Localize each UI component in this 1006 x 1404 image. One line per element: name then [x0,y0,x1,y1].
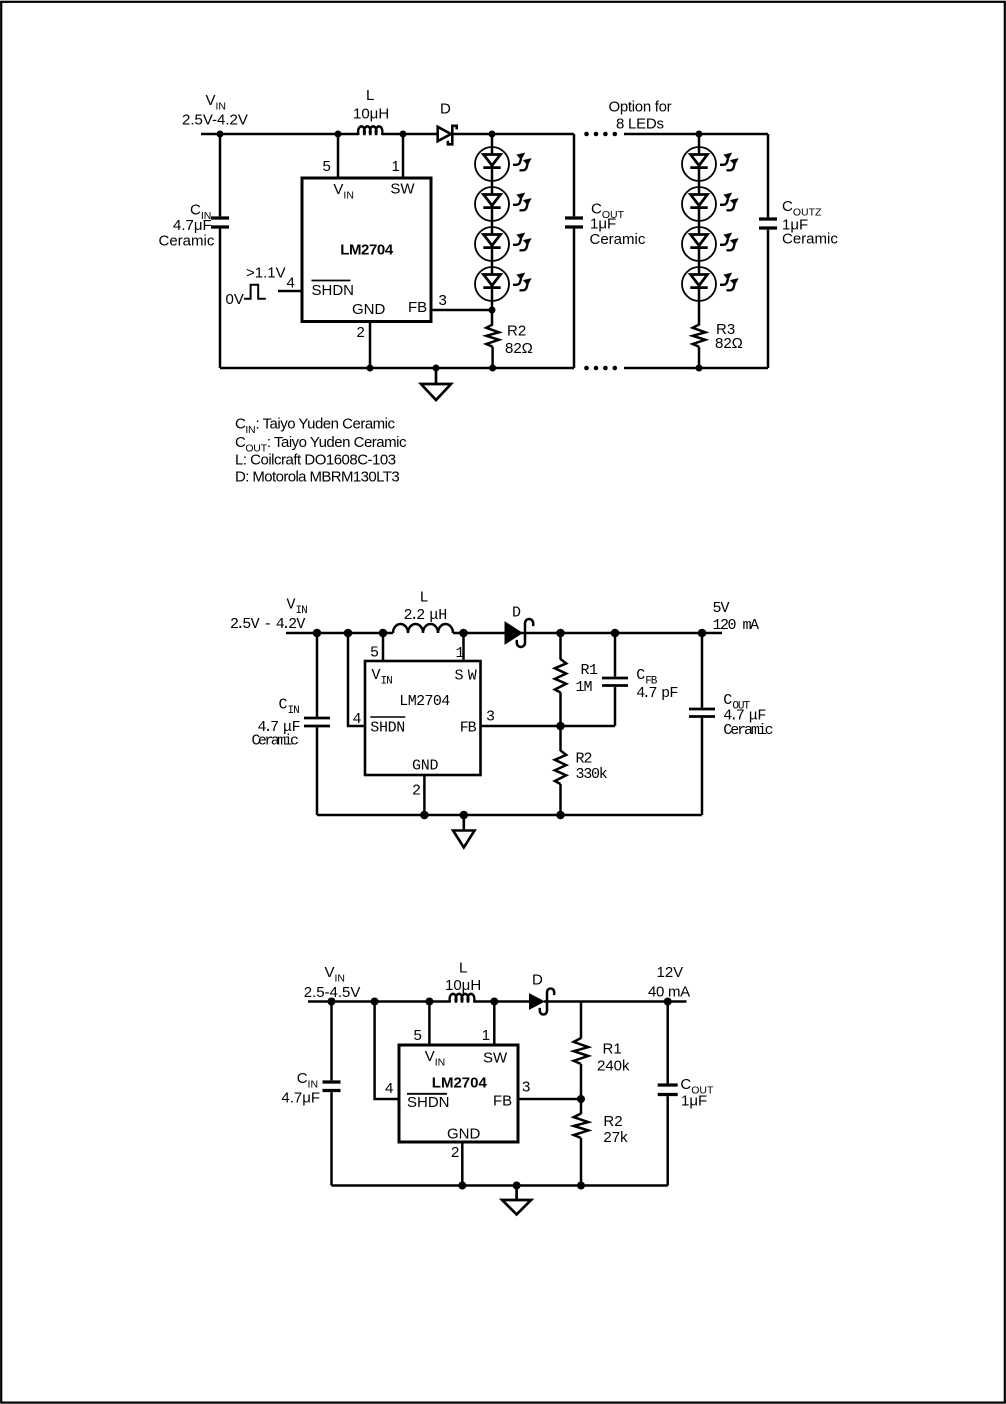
wire pin 1 stub (circuit 1) [402,134,405,178]
LED D5 (circuit 1 chain 2) [682,147,739,181]
wire bottom rail left segment (circuit 1) [220,367,574,370]
capacitor COUT 1uF (circuit 3) [658,1002,678,1186]
svg-text:SW: SW [483,1050,508,1067]
wire pin 2 stub (circuit 1) [369,322,372,369]
junction CIN top (circuit 3) [328,998,336,1006]
svg-text:330k: 330k [576,766,608,783]
svg-text:GND: GND [352,301,386,318]
capacitor CIN 4.7uF (circuit 3) [323,1002,341,1186]
diode D MBRM130LT3 (circuit 1) [438,126,457,145]
junction pin1 SW node (circuit 1) [400,131,407,138]
svg-text:SHDN: SHDN [312,282,355,299]
svg-text:Ceramic: Ceramic [590,231,646,248]
junction pin2 ground (circuit 2) [420,811,429,820]
svg-text:D: D [512,605,521,622]
svg-text:L: L [459,960,467,977]
wire R1 top stub (circuit 2) [559,633,562,660]
wire pin 1 stub (circuit 3) [493,1002,496,1046]
svg-text:L: L [366,87,374,104]
wire pin 5 stub (circuit 3) [428,1002,431,1046]
svg-text:Option for: Option for [609,99,672,116]
LED D1 (circuit 1 chain 1) [475,147,532,181]
svg-text:4.7μF: 4.7μF [173,217,212,234]
svg-text:GND: GND [447,1126,481,1143]
capacitor COUTZ 1uF (circuit 1) [759,134,777,368]
LED D3 (circuit 1 chain 1) [475,227,532,261]
LED D6 (circuit 1 chain 2) [682,187,739,221]
wire R2 bottom stub (circuit 2) [559,784,562,815]
wire top rail option segment (circuit 1) [624,133,768,136]
svg-text:4.7μF: 4.7μF [281,1090,320,1107]
svg-text:5: 5 [323,158,331,175]
svg-text:R2: R2 [576,751,593,768]
svg-text:LM2704: LM2704 [432,1075,488,1092]
pin label SHDN with overline (circuit 1) [312,281,355,300]
wire SHDN branch (circuit 2) [348,633,365,726]
svg-text:4: 4 [287,275,295,292]
svg-text:SHDN: SHDN [370,719,405,736]
wire bottom ground rail (circuit 2) [317,814,702,817]
inductor L 10uH (circuit 1) [358,126,382,135]
capacitor CIN 4.7uF (circuit 2) [304,633,330,815]
junction pin1 SW node (circuit 3) [490,998,498,1006]
wire top rail left segment (circuit 1) [201,133,359,136]
wire R2 top stub (circuit 2) [559,726,562,751]
resistor R3 82ohm (circuit 1) [693,325,706,347]
svg-text:FB: FB [493,1093,512,1110]
svg-text:10μH: 10μH [353,106,389,123]
ground (circuit 1) [421,368,451,400]
wire diode to COUT rail (circuit 1) [452,133,575,136]
svg-text:2.5V-4.2V: 2.5V-4.2V [182,112,248,129]
IC U3 LM2704 body (circuit 3) [399,1045,518,1142]
junction pin5 node (circuit 3) [425,998,433,1006]
svg-text:FB: FB [408,299,427,316]
junction SHDN branch top (circuit 3) [371,998,379,1006]
svg-text:3: 3 [439,292,447,309]
wire R2 to ground rail (circuit 1) [491,347,494,368]
svg-text:120 mA: 120 mA [713,617,760,634]
wire R2 top stub (circuit 3) [580,1099,583,1114]
wire pin 2 stub (circuit 2) [423,775,426,815]
inductor L 10uH (circuit 3) [450,994,475,1003]
resistor R2 330k (circuit 2) [555,751,566,785]
junction R1 R2 FB node (circuit 3) [577,1095,585,1103]
wire LED chain 1 column (circuit 1) [491,134,494,326]
svg-text:5: 5 [414,1027,422,1044]
wire R3 to ground rail (circuit 1) [698,347,701,368]
pulse waveform symbol (circuit 1) [244,285,266,299]
junction CIN top (circuit 2) [313,629,322,638]
svg-text:10μH: 10μH [445,977,481,994]
ground (circuit 2) [453,815,475,848]
svg-text:2: 2 [357,324,365,341]
wire FB node (circuit 2) [481,725,616,728]
capacitor CFB 4.7pF (circuit 2) [602,633,628,726]
LED D8 (circuit 1 chain 2) [682,267,739,301]
svg-text:0V: 0V [226,291,244,308]
junction COUT top output node (circuit 2) [698,629,707,638]
svg-text:L: Coilcraft DO1608C-103: L: Coilcraft DO1608C-103 [235,452,396,469]
resistor R1 1M (circuit 2) [555,659,566,693]
svg-text:5V: 5V [713,600,730,617]
svg-text:4: 4 [353,711,362,728]
wire R1 bottom stub (circuit 2) [559,693,562,727]
wire pin 3 FB to LED chain (circuit 1) [431,309,492,312]
svg-text:1M: 1M [576,679,593,696]
wire FB node (circuit 3) [518,1098,581,1101]
svg-text:SW: SW [390,181,415,198]
junction LED chain 1 top (circuit 1) [489,131,496,138]
junction R1 top (circuit 2) [556,629,565,638]
junction ground symbol (circuit 2) [460,811,469,820]
svg-text:GND: GND [412,758,439,775]
ellipsis dots top (circuit 1) [584,132,617,137]
wire diode to output (circuit 2) [521,632,722,635]
junction pin5 node (circuit 2) [379,629,388,638]
svg-text:12V: 12V [657,964,684,981]
svg-text:4.7pF: 4.7pF [636,685,678,702]
wire pin 4 stub (circuit 1) [278,290,302,293]
inductor L 2.2uH (circuit 2) [393,624,453,633]
wire SHDN branch (circuit 3) [375,1002,399,1100]
junction R2 bottom (circuit 2) [556,811,565,820]
capacitor COUT 1uF (circuit 1) [565,134,583,368]
ground (circuit 3) [502,1186,531,1215]
wire pin 5 stub (circuit 2) [382,633,385,661]
svg-text:5: 5 [370,645,379,662]
svg-text:Ceramic: Ceramic [723,722,773,739]
wire inductor to diode (circuit 1) [382,133,438,136]
pin label SHDN with overline (circuit 2) [370,717,405,736]
wire pin 1 stub (circuit 2) [462,633,465,661]
wire bottom rail option segment (circuit 1) [624,367,768,370]
resistor R1 240k (circuit 3) [574,1038,589,1064]
wire diode to output (circuit 3) [544,1000,687,1003]
junction CFB top (circuit 2) [611,629,620,638]
svg-text:R1: R1 [581,662,599,679]
svg-text:L: L [420,590,429,607]
svg-text:Ceramic: Ceramic [159,233,215,250]
LED D2 (circuit 1 chain 1) [475,187,532,221]
junction pin1 SW node (circuit 2) [459,629,468,638]
svg-text:R2: R2 [603,1113,622,1130]
svg-text:240k: 240k [597,1058,630,1075]
svg-text:1μF: 1μF [681,1093,707,1110]
junction R2 bottom (circuit 1) [489,365,496,372]
junction VIN node (circuit 1) [217,131,224,138]
wire R2 bottom stub (circuit 3) [580,1138,583,1186]
svg-text:>1.1V: >1.1V [246,265,286,282]
junction ground symbol (circuit 3) [513,1182,521,1190]
wire inductor to diode (circuit 3) [474,1000,530,1003]
wire R1 bottom stub (circuit 3) [580,1064,583,1099]
svg-text:D: D [440,101,451,118]
svg-text:D: D [532,972,543,989]
junction COUT top output node (circuit 3) [664,998,672,1006]
IC U2 LM2704 body (circuit 2) [365,661,481,775]
junction LED chain 2 top (circuit 1) [696,131,703,138]
wire R1 top stub (circuit 3) [580,1002,583,1039]
IC U1 LM2704 body (circuit 1) [302,178,431,322]
svg-text:D: Motorola MBRM130LT3: D: Motorola MBRM130LT3 [235,469,399,486]
resistor R2 27k (circuit 3) [574,1114,589,1139]
svg-text:82Ω: 82Ω [505,340,533,357]
junction pin5 node (circuit 1) [335,131,342,138]
pin label SHDN with overline (circuit 3) [407,1094,450,1111]
svg-text:2: 2 [451,1144,459,1161]
wire pin 2 stub (circuit 3) [461,1142,464,1186]
LED D7 (circuit 1 chain 2) [682,227,739,261]
svg-text:1: 1 [392,158,400,175]
svg-text:1: 1 [456,645,465,662]
wire pin 5 stub (circuit 1) [337,134,340,178]
ellipsis dots bottom (circuit 1) [584,366,617,371]
wire top rail input segment (circuit 2) [286,632,393,635]
svg-text:8 LEDs: 8 LEDs [616,116,664,133]
junction pin2 ground (circuit 1) [367,365,374,372]
svg-text:2: 2 [412,783,421,800]
svg-text:FB: FB [460,719,477,736]
svg-text:27k: 27k [603,1129,628,1146]
svg-text:3: 3 [486,709,495,726]
junction FB node (circuit 1) [489,307,496,314]
diode D (circuit 2) [505,619,533,647]
svg-text:SHDN: SHDN [407,1094,450,1111]
junction R1 R2 FB node (circuit 2) [556,722,565,731]
svg-text:2.5-4.5V: 2.5-4.5V [304,984,361,1001]
svg-text:1: 1 [482,1027,490,1044]
capacitor COUT 4.7uF (circuit 2) [689,633,715,815]
junction R3 bottom (circuit 1) [696,365,703,372]
svg-text:Ceramic: Ceramic [252,733,300,750]
svg-text:R1: R1 [603,1041,622,1058]
LED D4 (circuit 1 chain 1) [475,267,532,301]
junction pin2 ground (circuit 3) [458,1182,466,1190]
svg-text:LM2704: LM2704 [399,693,450,710]
svg-text:40 mA: 40 mA [648,984,690,1001]
capacitor CIN 4.7uF (circuit 1) [211,134,229,368]
wire top rail input segment (circuit 3) [308,1000,450,1003]
junction SHDN branch top (circuit 2) [344,629,353,638]
wire LED chain 2 column (circuit 1) [698,134,701,326]
diode D (circuit 3) [530,988,555,1014]
svg-text:82Ω: 82Ω [715,335,743,352]
svg-text:Ceramic: Ceramic [782,231,838,248]
svg-text:R2: R2 [507,323,526,340]
svg-text:4: 4 [385,1080,393,1097]
junction ground symbol (circuit 1) [433,365,440,372]
wire bottom ground rail (circuit 3) [332,1184,668,1187]
junction R2 bottom (circuit 3) [577,1182,585,1190]
resistor R2 82ohm (circuit 1) [486,325,499,347]
wire inductor to diode (circuit 2) [453,632,506,635]
svg-text:LM2704: LM2704 [340,242,394,259]
svg-text:2.5V-4.2V: 2.5V-4.2V [230,616,305,633]
svg-text:3: 3 [522,1079,530,1096]
